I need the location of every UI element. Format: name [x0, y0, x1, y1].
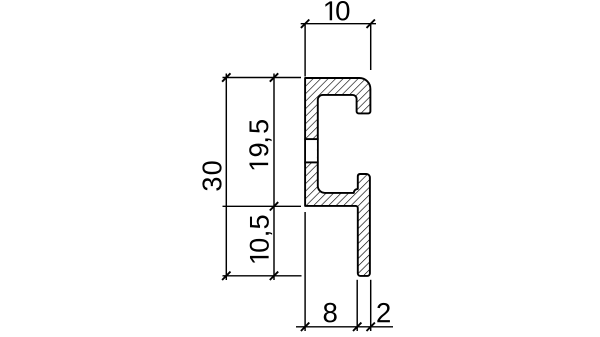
dimension text 2 [377, 303, 390, 322]
dimension line for 30 [225, 74, 227, 281]
bottom tick of dimension 30 [222, 272, 230, 280]
top tick of dimension 19,5 [270, 73, 278, 81]
right tick of dimension 2 [367, 323, 375, 331]
dimension line for 19,5 and 10,5 [273, 74, 275, 281]
extension line right of dimension 10 [370, 24, 372, 70]
extension line from flange right edge down to dimension 2 [370, 280, 372, 331]
extension line from flange left edge down to dimension 8 [356, 280, 358, 331]
top extension line for dimensions 30 and 19,5 [223, 77, 302, 79]
dimension text 8 [324, 303, 337, 323]
bottom extension line for dimensions 30 and 10,5 [223, 275, 302, 277]
dimension text 10,5 [250, 216, 272, 263]
dimension text 19,5 [249, 120, 271, 169]
profile cross-section body (hatched C-channel with bottom flange) [305, 78, 370, 276]
tick right of dimension 10 [367, 20, 375, 28]
middle extension line between 19,5 and 10,5 [223, 205, 302, 207]
insert window lower boundary line [304, 161, 318, 163]
insert window upper boundary line [304, 138, 318, 140]
bottom tick of dimension 10,5 [270, 272, 278, 280]
unhatched insert window in left wall [306, 140, 317, 162]
dimension line for 10 [301, 23, 376, 25]
dimension line for 8 and 2 [296, 326, 393, 328]
tick left of dimension 10 [301, 20, 309, 28]
middle tick between 8 and 2 [353, 323, 361, 331]
extension line from profile left edge down to dimension 8 [304, 212, 306, 331]
dimension text 10 [325, 1, 349, 21]
extension line left of dimension 10 [304, 24, 306, 77]
left tick of dimension 8 [301, 323, 309, 331]
dimension text 30 [202, 161, 221, 190]
middle tick between 19,5 and 10,5 [270, 202, 278, 210]
top tick of dimension 30 [222, 73, 230, 81]
